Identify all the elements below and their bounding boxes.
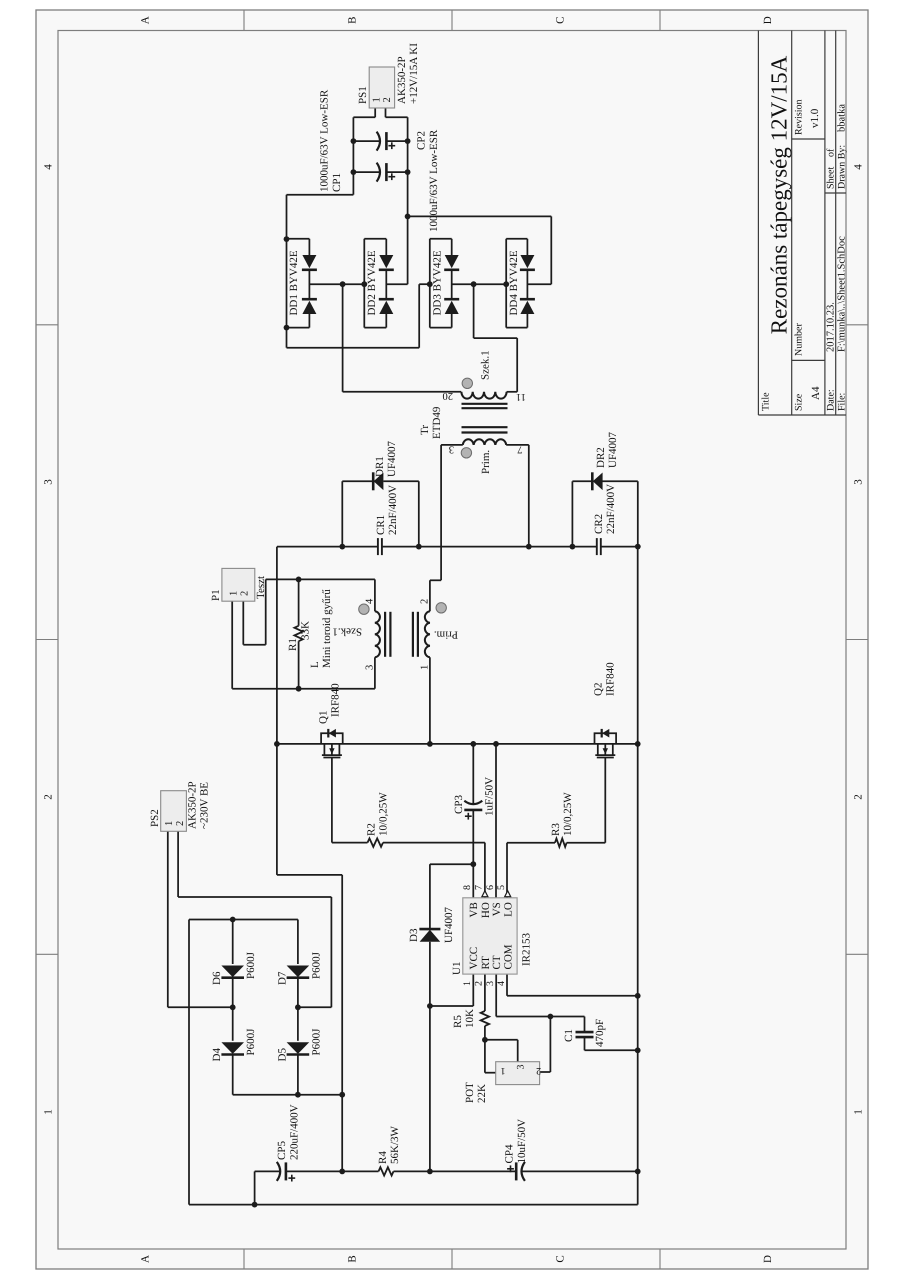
junction R5-POT: [482, 1037, 488, 1043]
wire DD3-DD4 link: [452, 283, 507, 285]
svg-text:RT: RT: [480, 956, 492, 970]
svg-text:DD1 BYV42E: DD1 BYV42E: [288, 250, 300, 315]
margin zone dividers: [36, 953, 58, 955]
svg-text:2017.10.23.: 2017.10.23.: [826, 302, 837, 352]
wire CP5 top: [254, 1171, 256, 1204]
diode D6 P600J: [221, 976, 244, 979]
wire: [603, 480, 638, 482]
junction AC1: [230, 1004, 236, 1010]
polarity dot toroid secondary: [359, 604, 369, 614]
svg-text:1: 1: [462, 981, 473, 986]
svg-text:F:\munka\..\Sheet1.SchDoc: F:\munka\..\Sheet1.SchDoc: [836, 236, 847, 352]
wire: [167, 831, 169, 1007]
svg-text:Teszt: Teszt: [255, 576, 267, 599]
wire bridge minus: [189, 919, 298, 921]
svg-text:1000uF/63V Low-ESR: 1000uF/63V Low-ESR: [319, 89, 331, 192]
wire COM pin: [506, 974, 508, 996]
svg-text:D5: D5: [276, 1048, 288, 1062]
wire VCC pin1 riser: [430, 1005, 473, 1007]
svg-text:Mini toroid gyűrű: Mini toroid gyűrű: [321, 589, 333, 668]
svg-text:File:: File:: [836, 393, 847, 411]
svg-text:6: 6: [485, 885, 496, 890]
junction DD3 anode: [427, 281, 433, 287]
wire POT pin3: [485, 1039, 518, 1041]
HO output marker: [482, 891, 488, 897]
diode D4 P600J: [221, 1053, 244, 1056]
svg-text:D: D: [762, 1255, 774, 1263]
svg-text:33K: 33K: [300, 621, 312, 640]
wire: [430, 579, 441, 581]
svg-text:3: 3: [853, 479, 865, 485]
wire: [287, 347, 420, 349]
wire DR2 loop: [571, 481, 573, 546]
svg-text:Prim.: Prim.: [434, 629, 458, 641]
capacitor CR1 22nF/400V: [377, 538, 379, 555]
svg-text:Revision: Revision: [794, 99, 805, 135]
wire: [386, 116, 408, 118]
junction CR2 bottom: [635, 544, 641, 550]
wire: [330, 897, 332, 1007]
junction pin7: [526, 544, 532, 550]
transistor Q1 IRF840: [321, 733, 343, 744]
capacitor CP2 1000uF/63V: [377, 132, 380, 151]
svg-text:U1: U1: [451, 962, 463, 975]
wire: [517, 1040, 519, 1062]
wire DD2 cathode stub: [386, 283, 407, 285]
svg-text:Tr: Tr: [419, 425, 431, 435]
junction DD1 top-right: [284, 236, 290, 242]
junction Q2 source: [635, 741, 641, 747]
svg-text:VB: VB: [468, 902, 480, 917]
junction CP2 top: [351, 138, 357, 144]
junction CP2 bottom: [405, 138, 411, 144]
wire: [374, 579, 376, 611]
polarity dot toroid primary: [436, 603, 446, 613]
svg-text:Szek.1: Szek.1: [480, 350, 492, 380]
wire VCC line: [429, 942, 431, 1172]
title block: [757, 31, 759, 416]
dual rectifier DD3 BYV42E: [429, 239, 431, 328]
wire: [472, 974, 474, 1006]
svg-text:R2: R2: [366, 823, 378, 836]
wire: [342, 480, 373, 482]
wire POT pin1: [485, 1072, 496, 1074]
wire: [232, 688, 375, 690]
wire CP1 bottom stub: [386, 171, 407, 173]
svg-text:22nF/400V: 22nF/400V: [387, 485, 399, 535]
wire: [177, 831, 179, 897]
wire P1 pin2: [242, 601, 244, 645]
svg-text:P600J: P600J: [245, 1028, 257, 1056]
svg-text:HO: HO: [480, 902, 492, 918]
svg-text:UF4007: UF4007: [443, 906, 455, 943]
svg-text:bbatka: bbatka: [836, 104, 847, 132]
wire PS1 pin1 stub: [374, 108, 376, 117]
svg-text:Q2: Q2: [593, 683, 605, 696]
junction bridge minus: [230, 917, 236, 923]
svg-text:P600J: P600J: [310, 1028, 322, 1056]
svg-text:1: 1: [228, 591, 239, 596]
svg-text:470pF: 470pF: [594, 1019, 606, 1047]
svg-text:CP4: CP4: [504, 1144, 516, 1163]
svg-text:UF4007: UF4007: [607, 431, 619, 468]
resistor R5 10K: [481, 1011, 489, 1026]
svg-text:IRF840: IRF840: [605, 662, 617, 696]
wire bridge plus: [233, 1094, 343, 1096]
wire: [287, 194, 354, 196]
junction CP4 minus: [635, 1169, 641, 1175]
svg-text:AK350-2P: AK350-2P: [396, 56, 408, 104]
wire half-bridge bus: [277, 743, 638, 745]
wire: [521, 1170, 637, 1172]
wire: [584, 1017, 586, 1033]
wire: [286, 195, 288, 239]
capacitor C1 470pF: [576, 1036, 594, 1039]
svg-text:Number: Number: [794, 323, 805, 356]
junction DR2 top: [570, 544, 576, 550]
wire primary pin3: [441, 444, 463, 446]
polarity dot primary: [461, 448, 471, 458]
svg-text:1000uF/63V Low-ESR: 1000uF/63V Low-ESR: [428, 129, 440, 232]
svg-text:POT: POT: [464, 1082, 476, 1103]
svg-text:DR2: DR2: [595, 447, 607, 468]
svg-text:56K/3W: 56K/3W: [389, 1126, 401, 1165]
svg-text:D3: D3: [408, 928, 420, 942]
svg-text:UF4007: UF4007: [386, 440, 398, 477]
svg-text:Size: Size: [794, 393, 805, 411]
resistor R2 10/0.25W: [368, 838, 384, 846]
wire primary pin7: [506, 444, 529, 446]
svg-text:CP5: CP5: [276, 1141, 288, 1160]
svg-text:P600J: P600J: [245, 951, 257, 979]
svg-text:P600J: P600J: [310, 951, 322, 979]
junction Q1 drain: [274, 741, 280, 747]
svg-text:5: 5: [496, 885, 507, 890]
svg-text:B: B: [347, 17, 359, 24]
wire: [383, 480, 418, 482]
wire Q2 gate: [604, 758, 606, 843]
diode D5 P600J: [287, 1053, 310, 1056]
junction DR1 top: [339, 544, 345, 550]
svg-text:1: 1: [43, 1109, 55, 1115]
wire: [507, 842, 555, 844]
wire CP2 top stub: [353, 140, 380, 142]
wire POT pin2: [540, 1071, 551, 1073]
capacitor CP1 1000uF/63V: [377, 163, 380, 182]
wire +HV rail: [276, 547, 278, 875]
wire P1 pin1: [231, 601, 233, 689]
capacitor CP4 10uF/50V: [515, 1162, 518, 1180]
junction VS: [493, 741, 499, 747]
svg-text:C: C: [555, 17, 567, 24]
junction R1 right: [296, 686, 302, 692]
wire: [297, 920, 299, 965]
wire: [549, 1017, 551, 1073]
svg-text:DD2 BYV42E: DD2 BYV42E: [366, 250, 378, 315]
svg-text:Rezonáns tápegység 12V/15A: Rezonáns tápegység 12V/15A: [767, 55, 792, 334]
capacitor CP5 220uF/400V: [277, 1162, 280, 1181]
wire: [232, 920, 234, 965]
junction CP1 bottom: [405, 169, 411, 175]
junction bridge plus HV: [339, 1092, 345, 1098]
svg-text:4: 4: [496, 981, 507, 986]
connector PS2 AK350-2P input: [161, 791, 187, 832]
svg-text:v1.0: v1.0: [809, 108, 821, 128]
wire: [297, 978, 299, 1041]
junction DR1 bottom: [416, 544, 422, 550]
wire CP5-R4 link: [286, 1170, 379, 1172]
diode DR1 UF4007: [372, 472, 375, 490]
svg-text:D7: D7: [276, 971, 288, 985]
svg-text:B: B: [347, 1255, 359, 1262]
wire anode jog: [419, 283, 430, 285]
wire: [255, 1170, 281, 1172]
wire CP1 top stub: [353, 171, 380, 173]
junction VCC-CP4: [427, 1169, 433, 1175]
diode D3 UF4007: [420, 930, 441, 942]
inductor L mini toroid Prim. winding: [425, 611, 430, 657]
junction VB: [470, 861, 476, 867]
junction DD2 anode: [361, 281, 367, 287]
svg-text:CT: CT: [491, 955, 503, 969]
wire: [277, 874, 342, 876]
svg-text:DD4 BYV42E: DD4 BYV42E: [508, 250, 520, 315]
dual rectifier DD4 BYV42E: [505, 239, 507, 328]
junction CP5 top: [252, 1202, 258, 1208]
wire: [382, 546, 597, 548]
transformer Tr secondary winding Szek.1: [461, 392, 506, 399]
junction DD1 top-left: [284, 325, 290, 331]
svg-text:4: 4: [365, 598, 376, 604]
wire DD4 drop: [408, 215, 552, 217]
svg-text:R4: R4: [377, 1151, 389, 1164]
dual rectifier DD1 BYV42E: [286, 239, 288, 328]
svg-text:10/0,25W: 10/0,25W: [562, 792, 574, 836]
resistor R4 56K/3W: [379, 1167, 394, 1175]
wire: [383, 842, 485, 844]
op-amp U1 IR2153 driver IC: [463, 898, 517, 974]
svg-text:Date:: Date:: [826, 389, 837, 411]
potentiometer POT 22K: [496, 1062, 540, 1085]
svg-text:4: 4: [43, 164, 55, 170]
svg-text:R5: R5: [452, 1015, 464, 1028]
svg-text:+12V/15A KI: +12V/15A KI: [408, 43, 420, 104]
svg-text:3: 3: [516, 1065, 527, 1070]
wire AC1: [168, 1006, 233, 1008]
junction CP3-VS: [470, 741, 476, 747]
svg-text:Title: Title: [761, 392, 772, 411]
wire: [298, 579, 300, 625]
wire: [266, 578, 375, 580]
transformer Tr ETD49 primary winding: [463, 439, 506, 445]
svg-text:DD3 BYV42E: DD3 BYV42E: [431, 250, 443, 315]
svg-text:Q1: Q1: [318, 711, 330, 724]
svg-text:1: 1: [164, 821, 175, 826]
svg-text:of: of: [826, 148, 837, 157]
svg-text:2: 2: [239, 591, 250, 596]
svg-text:IRF840: IRF840: [330, 683, 342, 717]
svg-text:D6: D6: [211, 971, 223, 985]
wire: [265, 579, 267, 644]
svg-text:2: 2: [43, 794, 55, 800]
wire DD1-DD2 link: [309, 283, 364, 285]
svg-text:CP1: CP1: [331, 173, 343, 192]
wire CT pin: [495, 974, 497, 1016]
svg-text:CP2: CP2: [416, 131, 428, 150]
wire R1 line: [298, 641, 300, 689]
wire: [394, 1170, 517, 1172]
junction secondary B: [471, 281, 477, 287]
connector P1 Teszt: [222, 568, 255, 601]
junction toroid primary: [427, 741, 433, 747]
wire: [516, 338, 518, 392]
wire: [496, 1016, 584, 1018]
svg-text:DR1: DR1: [374, 456, 386, 477]
wire output minus rail: [352, 117, 354, 194]
svg-text:CP3: CP3: [453, 795, 465, 814]
svg-text:3: 3: [449, 444, 454, 455]
wire output plus rail: [407, 117, 409, 284]
wire: [637, 481, 639, 546]
svg-text:P1: P1: [210, 589, 222, 601]
svg-text:10K: 10K: [464, 1009, 476, 1028]
svg-text:1uF/50V: 1uF/50V: [484, 777, 496, 816]
wire: [527, 283, 551, 285]
wire PS1 pin2 stub: [385, 108, 387, 117]
junction CP1 top: [351, 169, 357, 175]
svg-text:D: D: [762, 16, 774, 24]
svg-text:A: A: [140, 1255, 152, 1263]
svg-text:2: 2: [382, 97, 393, 102]
svg-text:R1: R1: [287, 638, 299, 651]
wire minus rail left: [189, 1204, 638, 1206]
junction COM ground: [635, 993, 641, 999]
svg-text:COM: COM: [503, 944, 515, 969]
svg-text:PS1: PS1: [357, 86, 369, 104]
wire: [341, 875, 343, 1172]
svg-text:CR2: CR2: [593, 514, 605, 534]
svg-text:CR1: CR1: [375, 515, 387, 535]
wire DR1 loop: [341, 481, 343, 546]
wire: [178, 896, 331, 898]
resistor R3 10/0.25W: [555, 839, 567, 847]
wire: [243, 644, 265, 646]
wire: [484, 1026, 486, 1040]
wire toroid primary: [429, 657, 431, 744]
wire pin7 run: [528, 445, 530, 547]
svg-text:2: 2: [853, 794, 865, 800]
transistor Q2 IRF840: [595, 733, 617, 744]
junction DD4 drop: [405, 214, 411, 220]
wire minus rail bottom: [637, 547, 639, 1205]
wire: [232, 978, 234, 1041]
junction CP5 plus: [339, 1169, 345, 1175]
wire: [429, 580, 431, 611]
svg-text:C: C: [555, 1255, 567, 1262]
wire C1 ground: [585, 1049, 638, 1051]
dual rectifier DD2 BYV42E: [363, 239, 365, 328]
wire: [572, 480, 592, 482]
svg-text:3: 3: [485, 981, 496, 986]
svg-text:C1: C1: [563, 1029, 575, 1042]
wire: [429, 864, 431, 929]
svg-text:2: 2: [474, 981, 485, 986]
svg-text:1: 1: [853, 1109, 865, 1115]
wire: [353, 116, 375, 118]
junction VCC: [427, 1003, 433, 1009]
capacitor CR2 22nF/400V: [596, 538, 598, 555]
junction DD4 anode: [503, 281, 509, 287]
svg-text:Prim.: Prim.: [480, 450, 492, 474]
svg-text:2: 2: [536, 1065, 541, 1076]
svg-text:4: 4: [853, 164, 865, 170]
toroid core: [384, 612, 386, 657]
wire bridge line2: [297, 1055, 299, 1095]
transformer core: [462, 431, 508, 433]
wire minus rail top: [188, 920, 190, 1205]
wire VS line: [495, 744, 497, 898]
svg-text:Drawn By:: Drawn By:: [836, 145, 847, 189]
svg-text:D4: D4: [211, 1048, 223, 1062]
wire: [343, 391, 462, 393]
wire: [474, 337, 518, 339]
junction R1 left: [296, 577, 302, 583]
wire secondary A: [342, 284, 344, 392]
svg-text:R3: R3: [550, 823, 562, 836]
resistor R1 33K: [294, 626, 302, 641]
wire pin3 run: [440, 445, 442, 580]
svg-text:11: 11: [516, 391, 526, 402]
svg-text:ETD49: ETD49: [431, 406, 443, 439]
inductor L mini toroid Szek.1 winding: [375, 611, 380, 657]
wire AC2: [298, 1006, 332, 1008]
svg-text:A: A: [140, 16, 152, 24]
LO output marker: [505, 891, 511, 897]
junction CT-POT: [548, 1014, 554, 1020]
polarity dot secondary: [462, 378, 472, 388]
capacitor CP3 1uF/50V: [464, 809, 482, 812]
svg-text:VS: VS: [491, 902, 503, 916]
wire: [472, 744, 474, 805]
svg-text:7: 7: [474, 885, 485, 890]
wire: [584, 1037, 586, 1050]
wire: [507, 995, 638, 997]
svg-text:~230V BE: ~230V BE: [199, 782, 211, 829]
svg-text:L: L: [309, 661, 321, 668]
svg-text:7: 7: [517, 444, 522, 455]
wire: [286, 328, 288, 348]
wire: [430, 863, 473, 865]
diode DR2 UF4007: [591, 472, 594, 490]
svg-text:1: 1: [501, 1065, 506, 1076]
svg-text:IR2153: IR2153: [521, 933, 533, 967]
wire VB line: [472, 810, 474, 898]
wire bridge line1: [232, 1055, 234, 1095]
junction secondary A: [340, 281, 346, 287]
svg-text:1: 1: [371, 97, 382, 102]
svg-text:A4: A4: [810, 386, 822, 400]
svg-text:VCC: VCC: [468, 947, 480, 970]
svg-text:LO: LO: [503, 902, 515, 917]
wire: [484, 1040, 486, 1073]
svg-text:20: 20: [443, 390, 454, 401]
svg-text:22nF/400V: 22nF/400V: [605, 484, 617, 534]
wire toroid secondary: [374, 657, 376, 688]
svg-text:8: 8: [462, 885, 473, 890]
svg-text:3: 3: [365, 665, 376, 670]
connector PS1 AK350-2P output: [369, 67, 394, 108]
svg-text:2: 2: [175, 821, 186, 826]
